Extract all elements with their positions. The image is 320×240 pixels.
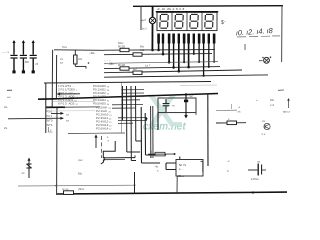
digit 4 segments	[205, 14, 213, 28]
wire right column x231	[231, 104, 233, 109]
segment wire a	[104, 49, 215, 52]
wire top rail	[133, 5, 283, 8]
faint rail a	[52, 100, 95, 102]
transistor area thin rail	[68, 132, 125, 135]
resistor R1	[118, 41, 129, 52]
watermark X logo	[148, 95, 183, 127]
display digit separators	[172, 12, 202, 30]
label XX above left wire	[62, 45, 68, 49]
svg-text:R2: R2	[133, 67, 137, 71]
right bottom texts	[227, 159, 230, 173]
svg-text:.,x: .,x	[237, 105, 241, 109]
power rail thick left	[38, 98, 57, 100]
seven-segment display top bar	[156, 11, 218, 13]
resistor R4	[133, 67, 142, 74]
svg-text:x5xx: x5xx	[78, 187, 85, 191]
display pin stubs below	[157, 34, 215, 44]
svg-text:~M̵x: ~M̵x	[89, 51, 95, 55]
segment wire f	[104, 75, 268, 77]
svg-text:w.x': w.x'	[141, 18, 147, 23]
junction bus dot	[145, 118, 147, 120]
right mid lamp squiggle	[258, 56, 271, 65]
digit 2 segments	[175, 14, 183, 28]
svg-text:xx: xx	[66, 113, 70, 117]
segment wire e	[104, 70, 242, 73]
svg-text:-.-.- x: -.-.- x	[2, 50, 9, 54]
junction dot left wire	[88, 62, 90, 64]
corner wire left of bus	[201, 161, 203, 172]
svg-text:$⁻: $⁻	[221, 20, 227, 26]
capacitor C7 right bottom	[248, 160, 266, 182]
IC left pin text column	[58, 84, 78, 106]
seven-segment display frame	[157, 12, 217, 30]
svg-text:6 P1.5 ·AD2·₃₇: 6 P1.5 ·AD2·₃₇	[58, 102, 78, 106]
resistor R7 on bus	[62, 187, 74, 194]
segment wire c	[104, 62, 218, 64]
bus vertical 8	[152, 106, 154, 158]
bottom bus	[56, 192, 287, 194]
label left connector a	[7, 89, 12, 91]
IC lower right pin text	[96, 106, 112, 131]
svg-text:x.2: x.2	[270, 103, 274, 107]
label between wires	[104, 59, 117, 67]
bus vertical 1	[122, 86, 124, 120]
label C3 value	[36, 62, 39, 66]
svg-text:x.x: x.x	[262, 132, 266, 136]
ground rail corner	[46, 106, 100, 108]
lamp DS feed wire	[151, 6, 153, 50]
label S+ annotation	[221, 20, 227, 26]
wire left vertical A	[51, 50, 53, 108]
svg-text:x2: x2	[190, 94, 194, 98]
label zener	[22, 171, 26, 175]
transistor circle right	[262, 119, 271, 136]
wire stub left of lamp	[140, 6, 142, 30]
resistor R5 vertical	[74, 50, 86, 69]
wire tick below note	[244, 44, 246, 50]
capacitor C6 in box	[163, 99, 170, 112]
dots step	[103, 157, 105, 161]
resistor R3	[118, 63, 129, 70]
label right of wire c	[145, 64, 151, 68]
svg-text:+x: +x	[172, 104, 176, 108]
lamp L1	[149, 17, 155, 23]
bus vertical 5	[141, 107, 160, 163]
fanout junction dots	[157, 49, 215, 77]
junction lamp wire	[151, 49, 154, 52]
label cap in box	[172, 104, 176, 108]
svg-text:Xxx: Xxx	[62, 45, 68, 49]
svg-text:.· .. Mx ·.: .· .. Mx ·.	[104, 62, 117, 66]
bus vertical 3	[131, 86, 136, 161]
label crystal	[190, 94, 194, 98]
display fanout vertical wires	[159, 43, 215, 76]
resistor R8 right	[216, 117, 246, 125]
label 5v	[78, 187, 85, 191]
bus vertical 7	[150, 106, 152, 158]
svg-text:xx: xx	[238, 110, 242, 114]
svg-text:R6: R6	[25, 60, 29, 64]
faint rail b	[46, 110, 95, 112]
wire step lower	[103, 157, 135, 159]
crystal Y1	[184, 95, 188, 119]
svg-text:rx xx: rx xx	[62, 187, 69, 191]
IC lower left pin text	[46, 105, 53, 127]
segment wire d	[104, 67, 220, 69]
svg-text:R102: R102	[118, 45, 126, 49]
svg-text:zx: zx	[22, 171, 26, 175]
wire Q1 emitter L	[103, 141, 115, 158]
notch above regulator	[179, 157, 181, 160]
svg-text:Lx *: Lx *	[145, 64, 151, 68]
IC U1 box bottom	[68, 132, 125, 135]
regulator ground lead	[176, 176, 178, 193]
svg-text:+.: +.	[256, 98, 259, 102]
vertical into bus x137	[134, 172, 136, 194]
wire left vertical C	[56, 107, 58, 193]
wire left vertical B	[55, 55, 57, 99]
svg-text:r6: r6	[36, 62, 39, 66]
arrow up symbol	[94, 134, 97, 148]
svg-text:Mx: Mx	[78, 172, 82, 176]
svg-text:cx: cx	[60, 61, 64, 65]
svg-text:RST: RST	[46, 105, 52, 109]
capacitor C3	[30, 40, 37, 73]
faint rail	[180, 84, 217, 87]
svg-text:spx.x: spx.x	[283, 110, 291, 114]
tick end	[134, 155, 136, 157]
bus vertical 4	[136, 86, 143, 141]
arrow up right	[283, 98, 291, 114]
component above regulator	[148, 151, 176, 159]
display pin numbers above	[157, 7, 185, 11]
digit 1 segments	[160, 14, 168, 28]
svg-text:2x-: 2x-	[4, 105, 8, 109]
label net name left	[89, 51, 95, 55]
capacitor C1	[10, 40, 17, 73]
svg-text:(x·): (x·)	[142, 27, 147, 31]
crystal box left drop	[157, 113, 159, 130]
arrow input TXD	[8, 117, 70, 123]
svg-text:2x.: 2x.	[4, 126, 8, 130]
svg-text:INT1: INT1	[46, 123, 53, 127]
wire top-left horizontal	[54, 49, 104, 52]
label left connector b	[7, 96, 11, 98]
arrow input pin 9	[57, 93, 81, 96]
wire right drop from top rail	[281, 6, 283, 63]
label C1 value	[2, 50, 9, 54]
arrow input RXD	[51, 112, 70, 117]
IC right pin stubs	[112, 90, 147, 124]
regulator left leads	[166, 163, 176, 170]
svg-text:.A!,.1#·,.8&.,2·.8.,3··8: .A!,.1#·,.8&.,2·.8.,3··8	[157, 7, 185, 11]
svg-text:INT0: INT0	[46, 119, 53, 123]
svg-text:M1: M1	[140, 48, 144, 52]
label lamp	[141, 18, 147, 31]
svg-text:P3.0: P3.0	[46, 110, 53, 114]
junction thin rail	[55, 185, 57, 187]
thin ground rail	[18, 184, 135, 186]
right text row1	[256, 98, 274, 107]
IC right pin text column	[93, 84, 110, 106]
right gray wire	[216, 105, 241, 114]
label C2 value	[25, 60, 29, 64]
svg-text:P3.1: P3.1	[46, 114, 53, 118]
bus junction dot	[252, 191, 254, 193]
regulator box	[176, 160, 203, 177]
junction crystal rail	[185, 93, 187, 95]
label Q1	[106, 135, 110, 143]
power rail thick main	[57, 94, 218, 99]
svg-text:xxx: xxx	[78, 158, 83, 162]
IC U1 box left	[45, 83, 47, 133]
handwritten note d0 d2 d4 d8	[235, 25, 280, 39]
wire right bus vertical	[207, 94, 209, 166]
resistor R2	[133, 45, 144, 57]
IC U1 box top	[44, 82, 211, 84]
label P3 text	[4, 126, 8, 130]
capacitor C2	[20, 40, 27, 73]
wire right small L	[195, 98, 197, 115]
digit 3 segments	[190, 14, 198, 28]
dash mark right	[278, 89, 284, 91]
segment wire b	[104, 54, 212, 55]
label above regulator	[155, 165, 159, 173]
svg-text:x8L.x: x8L.x	[177, 174, 185, 178]
bus vertical 2	[127, 86, 141, 152]
svg-text:P2.6/A14 ₂₇: P2.6/A14 ₂₇	[96, 127, 111, 131]
svg-text:Rx: Rx	[79, 57, 83, 61]
label C4	[60, 57, 64, 65]
watermark cxem.net	[143, 122, 187, 133]
bus vertical 6	[145, 113, 166, 155]
label r7	[78, 158, 83, 176]
svg-text:x ...: x ...	[179, 167, 184, 171]
label P2 text	[4, 105, 53, 132]
transistor Q1	[101, 136, 103, 158]
svg-text:xx: xx	[262, 119, 266, 123]
regulator inner text	[179, 163, 187, 171]
IC U1 box right	[121, 82, 123, 133]
svg-text:xx: xx	[66, 119, 70, 123]
label below regulator	[177, 174, 185, 178]
wire junction h	[101, 160, 104, 164]
zener D1	[26, 158, 31, 179]
svg-text:R102: R102	[118, 63, 126, 67]
wire step lower b	[103, 159, 125, 161]
svg-text:1x5xx: 1x5xx	[251, 177, 259, 181]
svg-text:ux: ux	[257, 160, 261, 164]
crystal box	[158, 98, 196, 113]
svg-text:Mx: Mx	[270, 98, 274, 102]
